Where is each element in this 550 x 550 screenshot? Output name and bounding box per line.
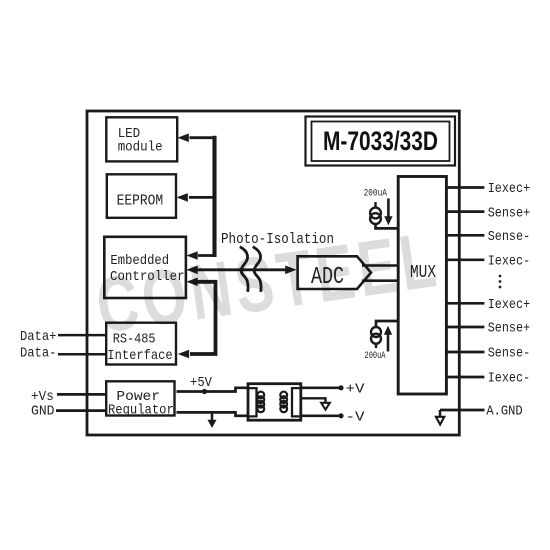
- svg-text:Sense-: Sense-: [488, 346, 531, 362]
- wire to controller top: [198, 254, 215, 257]
- ground symbol A.GND: [439, 410, 442, 417]
- svg-text:-V: -V: [346, 409, 366, 425]
- svg-text:module: module: [118, 139, 163, 155]
- bottom rail from regulator: [177, 412, 258, 415]
- Power Regulator box: [106, 381, 174, 415]
- svg-text:200uA: 200uA: [365, 351, 386, 362]
- transformer primary coil: [247, 388, 257, 416]
- svg-text:Iexec-: Iexec-: [488, 254, 531, 270]
- Data+ wire: [58, 334, 106, 337]
- svg-text:+Vs: +Vs: [31, 389, 54, 405]
- +V rail out: [301, 386, 341, 389]
- svg-text:Regulator: Regulator: [108, 403, 174, 419]
- svg-text:M-7033/33D: M-7033/33D: [323, 126, 438, 156]
- +Vs wire: [57, 393, 106, 396]
- svg-text:+5V: +5V: [190, 375, 213, 391]
- photo-isolation wire controller to ADC: [198, 268, 288, 271]
- LED module box: [106, 117, 177, 161]
- svg-text:Sense+: Sense+: [488, 205, 531, 221]
- node +5V dot: [202, 389, 207, 394]
- ground arrow down: [211, 412, 214, 420]
- svg-text:Data-: Data-: [20, 346, 56, 362]
- title box U0 outer: [306, 117, 456, 166]
- svg-text:Iexec+: Iexec+: [488, 297, 531, 313]
- svg-text:Data+: Data+: [20, 329, 56, 345]
- current source I2 (bottom): [376, 321, 399, 327]
- title box inner: [312, 122, 450, 162]
- arrow I2 direction: [387, 334, 390, 352]
- wire controller to RS-485: [190, 282, 216, 354]
- analog ground branch: [301, 398, 326, 403]
- MUX box U3: [398, 177, 446, 395]
- squiggle break 1: [240, 247, 248, 292]
- ADC pentagon U2: [298, 256, 371, 289]
- ADC to MUX wires: [362, 264, 400, 267]
- wire to EEPROM: [189, 196, 217, 199]
- squiggle break 2: [253, 247, 261, 292]
- A.GND wire: [440, 409, 485, 412]
- +5V rail from regulator: [177, 388, 258, 392]
- RS-485 Interface box: [106, 323, 176, 365]
- svg-text:Interface: Interface: [107, 348, 172, 364]
- Data- wire: [58, 353, 106, 356]
- svg-text:Iexec-: Iexec-: [488, 371, 531, 387]
- current source I1 (top): [374, 202, 376, 208]
- svg-text:Sense+: Sense+: [488, 321, 531, 337]
- arrow I1 direction: [387, 199, 390, 218]
- node -V dot: [338, 413, 343, 418]
- -V rail out: [301, 414, 341, 417]
- wire to LED module: [190, 136, 217, 139]
- svg-text:EEPROM: EEPROM: [117, 193, 164, 210]
- EEPROM box: [107, 174, 176, 218]
- transformer secondary coil: [292, 388, 302, 416]
- transformer T1 box: [248, 384, 301, 421]
- svg-text:+V: +V: [346, 381, 366, 397]
- bus vertical (LED/EEPROM/controller): [212, 136, 216, 257]
- node +V dot: [338, 385, 343, 390]
- ground symbol (hollow): [321, 403, 330, 410]
- MUX pin wires right: [446, 186, 484, 189]
- ellipsis dots: [499, 275, 502, 278]
- Embedded Controller box U1: [104, 237, 186, 298]
- svg-text:A.GND: A.GND: [486, 404, 522, 420]
- svg-text:Sense-: Sense-: [488, 229, 531, 245]
- svg-text:Iexec+: Iexec+: [488, 181, 531, 197]
- GND wire: [56, 409, 106, 412]
- outer border: [87, 111, 459, 435]
- svg-text:200uA: 200uA: [364, 189, 387, 200]
- svg-text:GND: GND: [31, 404, 55, 420]
